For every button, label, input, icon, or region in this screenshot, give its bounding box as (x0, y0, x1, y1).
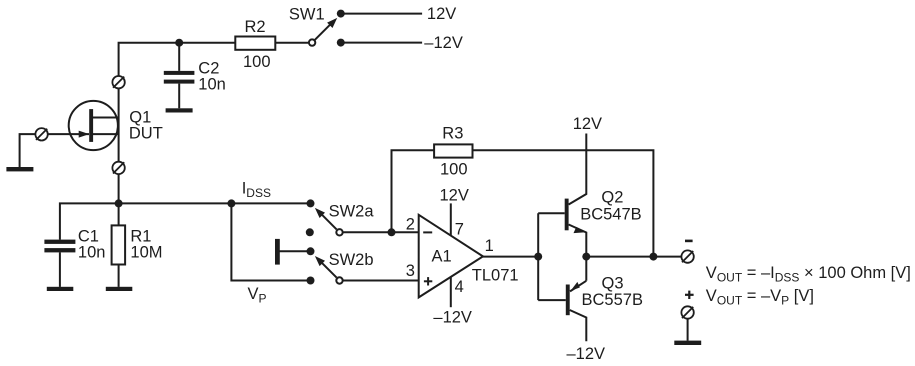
wire SW1 -12V line (344, 42, 422, 44)
svg-text:–12V: –12V (567, 345, 606, 363)
svg-text:12V: 12V (573, 115, 602, 133)
wire Q3 collector (570, 310, 587, 341)
wire C2 to ground (178, 84, 180, 109)
svg-text:R3: R3 (442, 125, 463, 143)
wire 12V to Q2 collector (569, 134, 587, 205)
svg-text:1: 1 (485, 237, 494, 255)
svg-text:10n: 10n (198, 76, 226, 94)
switch SW2a (306, 199, 343, 236)
capacitor C2 (164, 71, 195, 84)
svg-text:10M: 10M (130, 244, 162, 262)
svg-text:TL071: TL071 (472, 266, 519, 284)
terminal (output minus) (681, 250, 693, 262)
terminal (drain) (112, 76, 124, 88)
svg-text:3: 3 (406, 262, 415, 280)
svg-text:100: 100 (440, 161, 468, 179)
svg-text:2: 2 (406, 215, 415, 233)
svg-text:12V: 12V (440, 187, 469, 205)
svg-text:VP: VP (248, 285, 267, 306)
wire R3 to output node (473, 150, 654, 256)
wire SW2b pole to op-amp pin3 (344, 280, 419, 282)
svg-text:4: 4 (455, 278, 464, 296)
wire R2 to SW1 pole (275, 42, 308, 44)
wire SW2a pole to op-amp pin2 (344, 231, 419, 233)
transistor Q1 JFET DUT (69, 101, 119, 150)
capacitor C1 (44, 240, 75, 253)
transistor Q3 (566, 282, 580, 315)
wire op-amp pin4 supply (450, 277, 452, 307)
node junction feedback pin2 (388, 228, 396, 236)
label minus (685, 240, 693, 243)
wire Q3 base (538, 299, 566, 301)
svg-text:BC557B: BC557B (582, 291, 643, 309)
wire Q3 emitter diagonal (570, 281, 586, 292)
node junction emitters (582, 253, 590, 261)
switch SW2b (275, 239, 343, 285)
wire C1 to ground (59, 252, 61, 287)
op-amp A1 (419, 215, 483, 298)
svg-text:–12V: –12V (424, 34, 463, 52)
wire SW2b stub (279, 250, 311, 252)
ground (gate) (6, 167, 33, 171)
svg-text:VOUT = –IDSS × 100 Ohm [V]: VOUT = –IDSS × 100 Ohm [V] (706, 264, 911, 285)
terminal (gate) (35, 128, 47, 140)
wire R1 to ground (118, 265, 120, 287)
transistor Q2 (565, 199, 586, 234)
wire drain vertical and top horizontal to R2 (119, 43, 236, 204)
wire Q2 emitter (569, 225, 587, 281)
wire feedback vertical and to R3 (392, 150, 435, 232)
svg-text:IDSS: IDSS (242, 180, 271, 201)
svg-text:10n: 10n (78, 244, 106, 262)
ground (C1) (47, 287, 74, 291)
svg-text:VOUT = –VP [V]: VOUT = –VP [V] (706, 287, 814, 308)
node junction Vp (227, 199, 235, 207)
wire bases vertical (537, 213, 539, 300)
ground (R1) (106, 287, 133, 291)
wire gate horizontal and down to ground (20, 134, 89, 167)
wire SW1 12V line (344, 13, 422, 15)
wire C2 branch (178, 43, 180, 71)
svg-text:Q3: Q3 (602, 275, 624, 293)
resistor R1 (112, 225, 126, 264)
svg-text:–12V: –12V (433, 309, 472, 327)
svg-text:SW2a: SW2a (329, 202, 375, 220)
ground (C2) (166, 108, 193, 112)
svg-text:BC547B: BC547B (580, 206, 641, 224)
svg-text:A1: A1 (432, 248, 452, 266)
node junction output (649, 253, 657, 261)
node junction opamp out (534, 253, 542, 261)
svg-text:SW1: SW1 (289, 6, 325, 24)
label plus (685, 291, 694, 299)
svg-text:12V: 12V (427, 5, 456, 23)
node junction source (115, 199, 123, 207)
wire Vp branch (231, 203, 310, 280)
switch SW1 (309, 10, 345, 47)
resistor R3 (434, 144, 472, 157)
wire op-amp output (483, 256, 538, 258)
wire R1 top (118, 203, 120, 225)
ground (output plus) (674, 341, 701, 345)
terminal (output plus) (681, 306, 693, 318)
svg-text:7: 7 (455, 220, 464, 238)
svg-text:R2: R2 (245, 18, 266, 36)
wire plus terminal to ground (687, 319, 689, 341)
svg-text:SW2b: SW2b (329, 251, 374, 269)
wire mid horizontal and C1 branch (60, 203, 311, 239)
wire op-amp pin7 supply (450, 203, 452, 235)
svg-text:Q2: Q2 (601, 189, 623, 207)
node junction top (175, 39, 183, 47)
terminal (source) (112, 162, 124, 174)
svg-text:100: 100 (243, 53, 271, 71)
svg-text:DUT: DUT (129, 124, 163, 142)
resistor R2 (235, 37, 275, 50)
wire Q2 base (538, 212, 565, 214)
wire output rail (586, 256, 681, 258)
